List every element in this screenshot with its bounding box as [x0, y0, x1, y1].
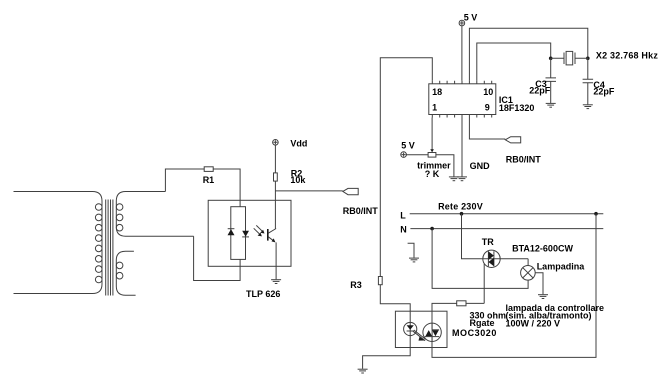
power Vdd [273, 139, 308, 149]
svg-text:RB0/INT: RB0/INT [343, 206, 379, 216]
wire (R1 to LED) [213, 169, 240, 207]
power 5V (trimmer) [401, 140, 415, 157]
svg-text:N: N [400, 225, 407, 235]
transformer core [106, 200, 113, 296]
wire (pin17 to crystal left) [477, 43, 551, 81]
connector RB0/INT (left) [343, 188, 379, 216]
wire (to RB0/INT tag) [275, 190, 342, 192]
light arrow (MOC coupling) [413, 330, 426, 341]
ground (trimmer) [449, 177, 459, 181]
svg-text:22pF: 22pF [593, 86, 615, 96]
svg-text:18F1320: 18F1320 [499, 103, 535, 113]
wire (GND pin) [461, 118, 463, 177]
wire (L to triac MT2) [462, 214, 529, 259]
wire (LED bottom to secondary) [194, 236, 241, 280]
wire (gate to Rgate to MOC) [432, 303, 484, 329]
wire (5V to pin15) [461, 26, 463, 81]
svg-text:BTA12-600CW: BTA12-600CW [512, 243, 573, 253]
node (crystal right junction) [586, 57, 590, 61]
wire (triac gate down) [483, 264, 485, 304]
node (L to right rail) [594, 212, 598, 216]
power 5V (top) [459, 13, 477, 26]
svg-text:100W / 220 V: 100W / 220 V [506, 319, 561, 329]
ground (lamp earth) [538, 295, 548, 299]
optocoupler U1 TLP626 body [208, 200, 291, 266]
wire (pin6 to RB0/INT tag) [469, 118, 505, 140]
wire (MOC LED cathode to ground) [363, 336, 411, 369]
svg-text:Rgate: Rgate [470, 318, 495, 328]
resistor Rgate 330 ohm [457, 301, 506, 328]
svg-text:10: 10 [483, 87, 493, 97]
svg-text:Vdd: Vdd [290, 139, 307, 149]
resistor R1 [204, 167, 213, 172]
diode D2 (anode down) [242, 231, 249, 237]
svg-text:22pF: 22pF [529, 86, 551, 96]
svg-text:TLP 626: TLP 626 [246, 289, 280, 299]
svg-text:5 V: 5 V [401, 140, 415, 150]
IC U2 IC1 18F1320 body [429, 84, 535, 115]
capacitor C4 22pF [583, 58, 615, 104]
net N (mains line) [400, 225, 603, 235]
IC bottom pins [432, 115, 491, 118]
svg-text:L: L [400, 211, 406, 221]
wire (pin18 long net down to MOC LED) [380, 58, 432, 323]
wire (lamp bottom to N) [432, 229, 528, 289]
svg-text:MOC3020: MOC3020 [452, 328, 497, 338]
resistor R2 10k [274, 169, 307, 186]
transformer secondary winding 1 [116, 192, 193, 237]
capacitor C3 22pF [529, 58, 556, 103]
LED (MOC input) [404, 322, 417, 335]
ground (MOC LED) [358, 369, 368, 373]
svg-text:RB0/INT: RB0/INT [506, 155, 542, 165]
lamp Lampadina [521, 259, 586, 280]
IC top pins [432, 81, 491, 84]
wire (mains lead top-left) [14, 191, 93, 193]
node (crystal left junction) [549, 57, 553, 61]
svg-text:? K: ? K [425, 169, 440, 179]
ground (mains earth stub) [408, 243, 419, 262]
wire (lamp right to earth) [535, 273, 543, 295]
svg-text:TR: TR [482, 237, 494, 247]
svg-text:10k: 10k [290, 175, 306, 185]
optocoupler U3 MOC3020 body [395, 311, 496, 347]
phototriac (MOC output) [423, 323, 441, 341]
node (L to triac) [460, 212, 464, 216]
ground (C4) [583, 105, 593, 109]
node (N to lamp return) [430, 227, 434, 231]
LED pair rectangle [231, 207, 246, 260]
svg-text:Rete 230V: Rete 230V [438, 201, 483, 211]
net L (mains line) [400, 211, 603, 221]
crystal X2 32.768 kHz [551, 50, 659, 65]
label lamp description [506, 303, 605, 329]
svg-text:5 V: 5 V [464, 13, 478, 23]
svg-text:X2 32.768 Hkz: X2 32.768 Hkz [596, 50, 658, 60]
svg-text:9: 9 [485, 103, 490, 113]
svg-text:R3: R3 [350, 280, 362, 290]
ground (IC GND) [457, 177, 467, 181]
svg-text:GND: GND [470, 161, 491, 171]
ground (C3) [546, 103, 556, 107]
wire (pin16 to crystal right) [469, 28, 587, 81]
wire (R2 to collector) [274, 181, 276, 229]
wire (mains lead bottom-left) [14, 293, 93, 295]
phototransistor Q1 [268, 229, 276, 243]
transformer primary winding [93, 192, 103, 294]
wire (5V to trimmer to ground) [406, 155, 454, 177]
light arrows into Q1 [254, 225, 265, 236]
triac TR BTA12-600CW [482, 237, 574, 268]
svg-text:R1: R1 [203, 175, 215, 185]
wire (MOC triac to right rail) [432, 214, 596, 358]
ground (TLP emitter) [271, 280, 281, 284]
transformer secondary winding 2 [116, 251, 135, 295]
svg-text:18: 18 [432, 87, 442, 97]
resistor R3 [350, 277, 382, 291]
connector RB0/INT (lower) [505, 137, 541, 165]
svg-text:1: 1 [432, 103, 437, 113]
diode D1 (anode up) [228, 229, 235, 236]
wire (secondary to R1) [165, 169, 204, 192]
wire (Vdd to R2) [274, 145, 276, 173]
wire (emitter to ground) [275, 242, 277, 279]
trimmer P1 ? K [417, 118, 451, 179]
svg-text:Lampadina: Lampadina [537, 261, 586, 271]
